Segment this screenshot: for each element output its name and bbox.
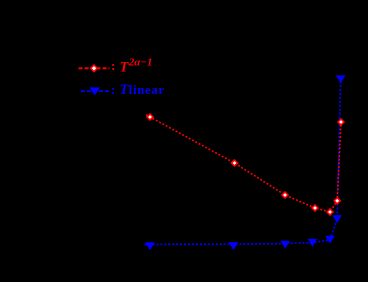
legend: red diamond: [90, 64, 99, 73]
wire: red dashed curve T^2a-1: [146, 115, 341, 212]
blue triangle marker 4: [308, 239, 318, 247]
red diamond marker 1: [146, 113, 154, 121]
red diamond marker 7: [337, 118, 345, 126]
wire: blue dashed curve Tlinear: [145, 79, 341, 244]
legend: blue triangle: [90, 87, 100, 95]
red diamond marker 6: [333, 197, 341, 205]
red diamond marker 5: [326, 208, 334, 216]
blue triangle marker 6: [332, 215, 342, 223]
svg-text::: :: [111, 58, 115, 73]
blue triangle marker 3: [280, 241, 290, 249]
blue triangle marker 1: [145, 242, 155, 250]
svg-text:linear: linear: [129, 83, 165, 97]
svg-text::: :: [111, 82, 115, 97]
legend: red line sample: [79, 67, 110, 69]
red diamond marker 2: [230, 159, 238, 167]
legend: blue line sample: [81, 90, 110, 92]
blue triangle marker 7 (top): [336, 75, 346, 83]
blue triangle marker 5: [325, 236, 335, 244]
red diamond marker 4: [311, 204, 319, 212]
blue triangle marker 2: [229, 242, 239, 250]
red diamond marker 3: [281, 191, 289, 199]
svg-text:2α−1: 2α−1: [128, 57, 153, 69]
